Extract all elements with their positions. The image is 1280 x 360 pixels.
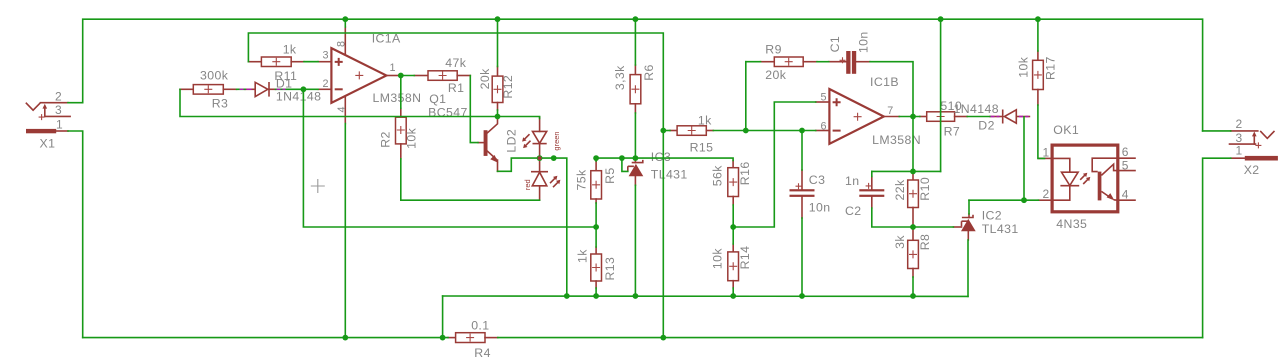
pin overlap marks D1 D2	[240, 88, 252, 90]
resistor R7 510	[920, 99, 968, 138]
junction LED midpoint	[537, 155, 543, 161]
svg-text:22k: 22k	[893, 179, 907, 200]
connector X1	[26, 89, 70, 150]
resistor R1 47k	[414, 56, 470, 95]
wire rail down to R6 top	[634, 19, 636, 65]
junction R9 branch	[743, 128, 749, 134]
svg-text:R8: R8	[918, 234, 932, 251]
svg-text:5: 5	[821, 91, 827, 103]
svg-text:1k: 1k	[283, 42, 297, 56]
junction bottom rail midground drop	[440, 335, 446, 341]
svg-text:red: red	[523, 179, 532, 190]
wire C2/R10 node line to rail riser x940.6	[872, 170, 941, 172]
svg-text:4: 4	[1122, 187, 1129, 201]
wire mid ground bus y296	[443, 295, 968, 297]
junction rail-x940	[938, 16, 944, 22]
svg-text:300k: 300k	[200, 69, 229, 83]
svg-text:6: 6	[1122, 145, 1129, 159]
wire D1 cathode to IC1A pin2	[276, 88, 319, 90]
wire tap to R14 top	[732, 227, 734, 244]
resistor R12 20k	[478, 67, 515, 111]
svg-text:3: 3	[323, 50, 329, 62]
svg-text:IC2: IC2	[982, 208, 1002, 222]
wire R8 bottom to mid ground	[912, 277, 914, 296]
wire pin2 node down and across to divider tap	[303, 89, 596, 227]
resistor R9 20k	[761, 43, 818, 82]
svg-text:3: 3	[55, 103, 62, 117]
svg-text:1k: 1k	[575, 249, 589, 263]
junction midground R8	[910, 293, 916, 299]
shunt regulator IC3 TL431	[628, 150, 688, 186]
wire tap to R13 top	[595, 227, 597, 247]
wire D2 down column through OK1 pin2 node to mid ground	[1023, 117, 1025, 200]
wire IC2 anode to mid ground	[967, 240, 969, 296]
wire X1 pin1 down to bottom rail	[68, 131, 83, 338]
svg-text:R1: R1	[448, 81, 465, 95]
wire R12 bottom to collector junction	[497, 110, 499, 117]
resistor R10 22k	[893, 171, 932, 227]
svg-text:4: 4	[336, 106, 348, 112]
wire OK1 pin2 line to IC2 cathode	[969, 199, 1038, 201]
resistor R16 56k	[710, 161, 752, 206]
junction midground IC3 anode	[633, 293, 639, 299]
connector X2	[1230, 117, 1278, 177]
junction emitter wire end	[551, 155, 557, 161]
svg-text:R17: R17	[1044, 56, 1058, 80]
junction collector-R12	[495, 114, 501, 120]
sheet origin cross	[311, 179, 325, 193]
svg-text:LM358N: LM358N	[373, 91, 422, 105]
svg-text:X2: X2	[1244, 163, 1260, 177]
wire R10 bottom node line C2 bottom to IC2 ref	[872, 208, 954, 227]
junction rail-pin8	[342, 16, 348, 22]
junction R5 top	[593, 155, 599, 161]
wire C3 bottom to mid ground	[801, 218, 803, 296]
capacitor C3 10n	[790, 170, 831, 218]
junction rail-R6	[633, 16, 639, 22]
svg-text:10k: 10k	[405, 127, 419, 148]
svg-text:R10: R10	[918, 177, 932, 201]
wire x663 column to R15 left	[663, 130, 670, 132]
wire IC1B output to R7	[899, 116, 920, 118]
svg-text:10k: 10k	[710, 248, 724, 269]
wire X2 pin1 down leg	[1203, 158, 1231, 337]
wire R15 right to IC1B pin6	[713, 130, 815, 132]
svg-text:C3: C3	[809, 173, 826, 187]
svg-text:R12: R12	[501, 75, 515, 99]
wire R6 bottom to IC3 cathode node	[634, 113, 636, 158]
wire IC3 ref jog	[622, 158, 628, 171]
wire IC1A pin4 to bottom rail	[344, 124, 346, 338]
wire Q1 emitter jog to LED midpoint	[498, 158, 540, 171]
junction divider tap R5-R13	[593, 224, 599, 230]
wire rail down to R12 top	[497, 19, 499, 66]
svg-text:2: 2	[55, 89, 62, 103]
capacitor C2 1n	[845, 174, 884, 218]
junction rail-R12	[495, 16, 501, 22]
svg-text:5: 5	[1122, 158, 1129, 172]
svg-text:10n: 10n	[809, 200, 831, 214]
svg-text:6: 6	[821, 121, 827, 133]
resistor R13 1k	[575, 247, 617, 288]
junction C3 top	[799, 128, 805, 134]
wire rail riser x940.6	[940, 19, 942, 171]
svg-text:R14: R14	[738, 246, 752, 270]
junction midground R13	[593, 293, 599, 299]
svg-text:10n: 10n	[857, 31, 871, 53]
wire R9 left	[746, 61, 761, 63]
wire R2 bottom to LD2 red anode	[401, 159, 540, 200]
wire rail down to R17 top	[1037, 19, 1039, 51]
wire R17 bottom to OK1 pin1	[1038, 105, 1045, 158]
wire R9 right to C1	[817, 61, 829, 63]
svg-text:R7: R7	[944, 124, 961, 138]
svg-text:Q1: Q1	[429, 92, 446, 106]
wire R3/D1 segment	[237, 88, 245, 90]
capacitor C1 10n	[828, 31, 871, 73]
svg-text:R16: R16	[738, 161, 752, 185]
resistor R2 10k	[379, 108, 419, 159]
wire R11 left riser and long feedback line to x663 column	[248, 33, 663, 338]
wire IC1A pin8 to rail	[344, 19, 346, 27]
svg-text:1k: 1k	[698, 114, 712, 128]
wire IC2 cathode riser	[968, 200, 970, 214]
svg-text:47k: 47k	[445, 56, 466, 70]
junction rail-R17	[1035, 16, 1041, 22]
wire R13 bottom to mid ground	[595, 288, 597, 296]
wire R7 to D2	[967, 116, 990, 118]
svg-text:1: 1	[390, 62, 396, 74]
wire IC3 anode to mid ground	[634, 185, 636, 296]
op-amp IC1A LM358N	[318, 27, 421, 124]
wire C3 top to pin6 line	[801, 131, 803, 171]
svg-text:R9: R9	[765, 43, 782, 57]
optocoupler OK1 4N35	[1038, 123, 1135, 231]
svg-text:R2: R2	[379, 131, 393, 148]
svg-text:IC3: IC3	[651, 150, 671, 164]
diode D2 1N4148	[954, 102, 1030, 133]
transistor Q1 BC547	[428, 92, 518, 171]
resistor R6 3,3k	[613, 64, 656, 113]
svg-text:2: 2	[323, 78, 329, 90]
wire LED midpoint to mid ground riser	[540, 158, 567, 296]
svg-text:3k: 3k	[893, 235, 907, 249]
junction midground x566	[564, 293, 570, 299]
wire R14 bottom to mid ground	[732, 288, 734, 296]
junction IC3 cathode	[633, 155, 639, 161]
junction pin2 node	[301, 86, 307, 92]
wire R5 top stub	[595, 158, 597, 161]
resistor R4 0.1	[448, 319, 498, 360]
wire IC1A output node	[399, 75, 414, 77]
svg-text:20k: 20k	[478, 68, 492, 89]
wire R3 left loop to signal line y116.5 into LD2 green anode	[180, 89, 540, 118]
junction R16-R14 tap	[730, 224, 736, 230]
svg-text:1n: 1n	[845, 174, 859, 188]
svg-text:8: 8	[336, 41, 348, 47]
wire R16 bottom to tap	[732, 205, 734, 227]
resistor R11 1k	[248, 42, 304, 83]
led LD2 red	[523, 158, 560, 200]
svg-text:1N4148: 1N4148	[954, 102, 999, 116]
svg-text:TL431: TL431	[651, 167, 688, 181]
resistor R15 1k	[670, 114, 713, 155]
junction R15 left column	[660, 128, 666, 134]
svg-text:56k: 56k	[710, 165, 724, 186]
diode D1 1N4148	[245, 77, 321, 104]
wire mid ground bus drop to bottom rail	[442, 296, 444, 338]
wire X2 pin2 stub	[1203, 130, 1231, 132]
junction bottom rail pin4	[342, 335, 348, 341]
svg-text:C1: C1	[828, 36, 842, 53]
wire bottom ground rail right of R4	[498, 337, 1203, 339]
svg-text:X1: X1	[40, 137, 56, 151]
wire IC1B pin5 jog down to R16/R14 tap	[733, 102, 816, 227]
svg-text:0.1: 0.1	[471, 319, 489, 333]
svg-text:R3: R3	[212, 97, 229, 111]
svg-text:OK1: OK1	[1053, 123, 1079, 137]
wire R5 bottom to tap	[595, 203, 597, 227]
svg-text:10k: 10k	[1016, 56, 1030, 77]
wire C1 right to output column	[870, 62, 913, 117]
svg-text:R15: R15	[690, 141, 714, 155]
resistor R5 75k	[575, 161, 617, 203]
wire output column down to C2/R10 node	[912, 117, 914, 172]
svg-text:7: 7	[887, 105, 893, 117]
svg-text:R4: R4	[474, 346, 491, 360]
wire TL431 cathode line to R16 top	[595, 158, 733, 160]
junction IC1B output	[910, 114, 916, 120]
junction IC3 ref	[619, 155, 625, 161]
shunt regulator IC2 TL431	[953, 208, 1018, 240]
resistor R17 10k	[1016, 51, 1057, 105]
led LD2 green	[522, 117, 561, 158]
resistor R14 10k	[710, 244, 752, 288]
svg-text:4N35: 4N35	[1056, 217, 1087, 231]
svg-text:R6: R6	[642, 64, 656, 81]
svg-text:TL431: TL431	[982, 222, 1019, 236]
svg-text:R11: R11	[274, 69, 297, 83]
junction IC1A output	[398, 73, 404, 79]
junction OK1 pin2 node	[1021, 197, 1027, 203]
junction midground C3	[799, 293, 805, 299]
wire bottom ground rail left of R4	[83, 337, 448, 339]
wire R11 right to IC1A pin3	[304, 61, 318, 63]
op-amp IC1B LM358N	[816, 75, 921, 147]
svg-text:D2: D2	[978, 119, 995, 133]
wire X1 pin2 to rail riser	[68, 102, 83, 104]
svg-text:2: 2	[1043, 187, 1050, 201]
wire R9 branch riser	[745, 62, 747, 131]
svg-text:3,3k: 3,3k	[613, 65, 627, 90]
wire top supply rail	[83, 19, 1203, 131]
resistor R3 300k	[180, 69, 237, 111]
svg-text:1: 1	[56, 117, 63, 131]
svg-text:LD2: LD2	[504, 129, 518, 153]
wire C2 top leg	[871, 171, 873, 176]
svg-text:green: green	[552, 131, 561, 150]
svg-text:IC1B: IC1B	[870, 75, 899, 89]
wire R1 right down to Q1 base	[470, 76, 478, 143]
junction C2-R10 node	[910, 169, 916, 175]
svg-text:1: 1	[1236, 144, 1243, 158]
junction midground R14	[730, 293, 736, 299]
svg-text:2: 2	[1236, 117, 1243, 131]
svg-text:R5: R5	[603, 167, 617, 184]
wire output junction down to R2 top	[400, 76, 402, 109]
svg-text:1: 1	[1043, 145, 1050, 159]
svg-text:C2: C2	[845, 204, 862, 218]
svg-text:75k: 75k	[575, 169, 589, 190]
svg-text:1N4148: 1N4148	[276, 89, 321, 103]
resistor R8 3k	[893, 227, 932, 277]
svg-text:R13: R13	[603, 257, 617, 281]
junction R10-R8 node	[910, 224, 916, 230]
svg-text:20k: 20k	[765, 68, 786, 82]
junction bottom rail x663	[660, 335, 666, 341]
wire IC1A output left green	[304, 61, 318, 63]
